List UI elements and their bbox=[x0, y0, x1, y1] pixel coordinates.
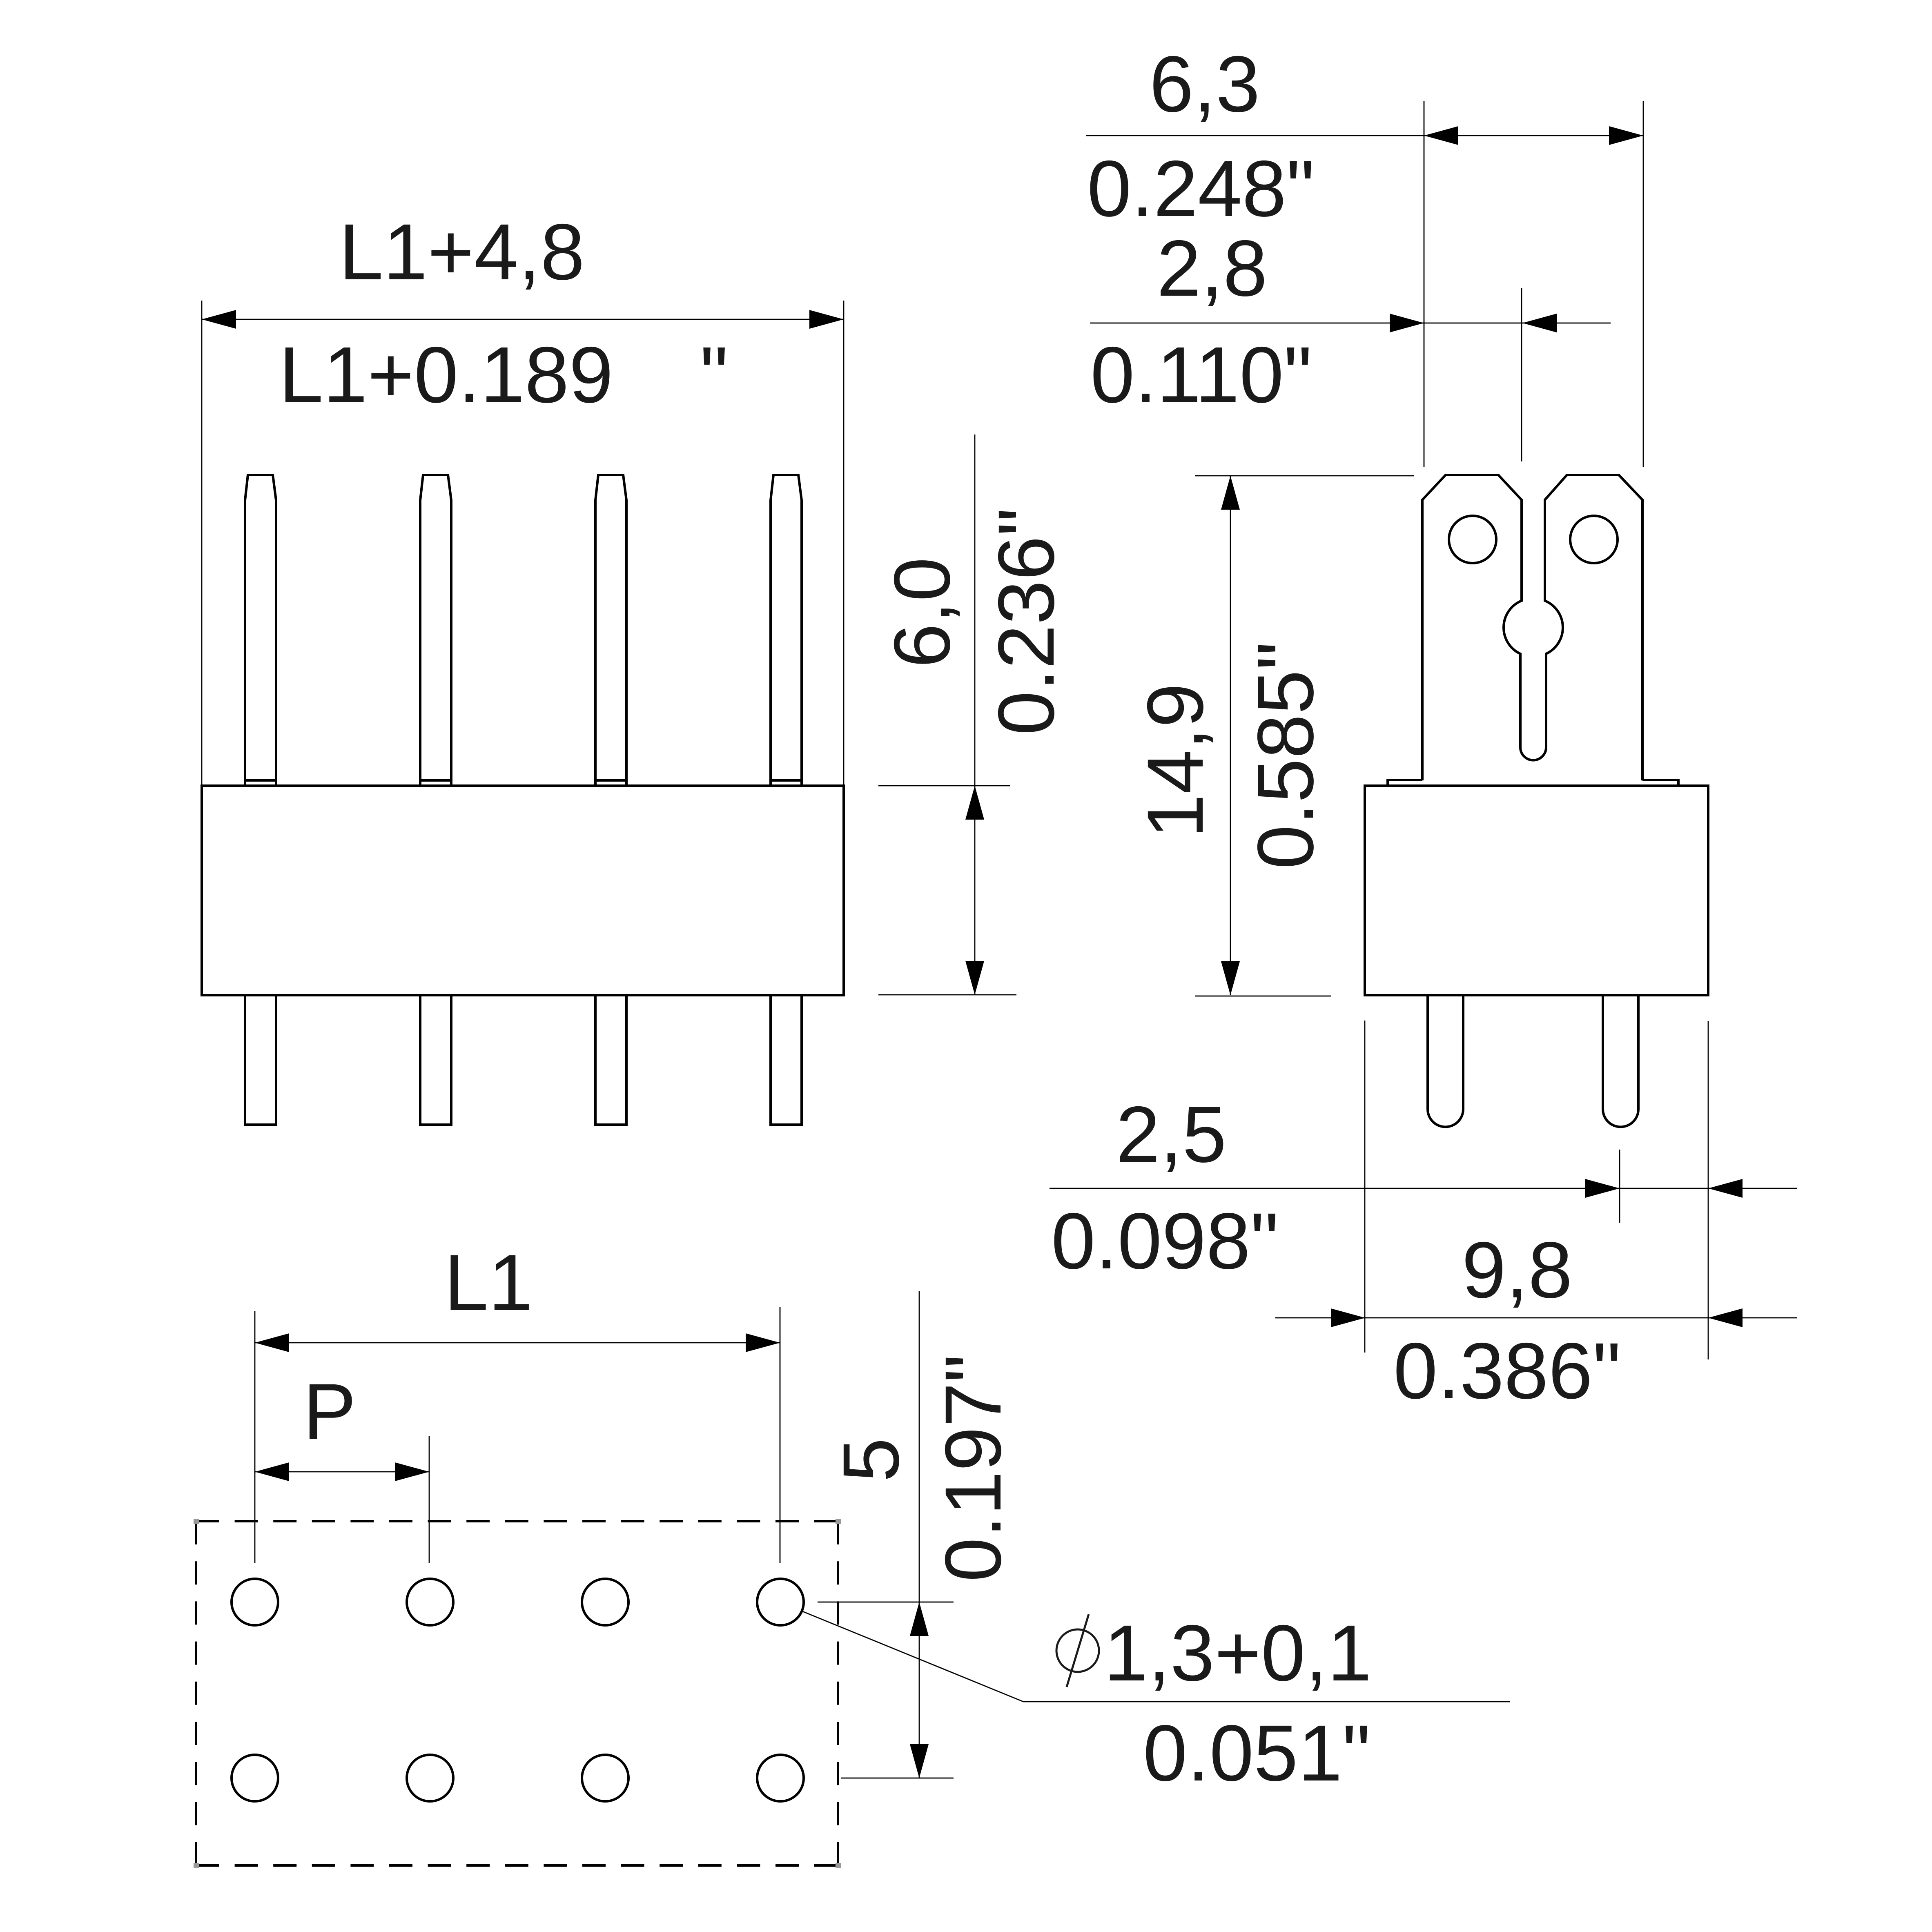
svg-text:0.110": 0.110" bbox=[1090, 330, 1312, 419]
hole row1 col1 bbox=[232, 1579, 278, 1625]
svg-text:L1+0.189: L1+0.189 bbox=[279, 330, 613, 419]
flange right segment bbox=[1642, 780, 1678, 786]
extension line 6,3 left bbox=[1424, 101, 1425, 467]
extension line right of L1+4,8 bbox=[843, 301, 845, 786]
hole row2 col2 bbox=[407, 1755, 453, 1801]
extension line row2 bbox=[841, 1778, 954, 1779]
extension line body bottom left bbox=[1195, 996, 1331, 997]
extension line body left bbox=[1364, 1021, 1366, 1353]
corner marker bottom-left bbox=[194, 1863, 199, 1868]
pin 2 bottom bbox=[420, 995, 451, 1125]
flange left segment bbox=[1388, 780, 1422, 786]
svg-text:5: 5 bbox=[827, 1438, 916, 1482]
arrow right L1 bbox=[746, 1333, 780, 1352]
pin 1 bottom bbox=[245, 995, 276, 1125]
extension line P right bbox=[429, 1436, 430, 1563]
dimension 6,0 vertical line bbox=[974, 435, 976, 995]
extension line blade top bbox=[1195, 475, 1414, 477]
arrow up at body top bbox=[965, 786, 984, 820]
drill outline dashed rectangle bbox=[196, 1521, 838, 1865]
svg-text:0.197": 0.197" bbox=[929, 1354, 1018, 1582]
pin 1 top bbox=[245, 475, 276, 786]
arrow down at row2 bbox=[910, 1744, 929, 1778]
dimension line 2,5 bbox=[1050, 1188, 1797, 1189]
dimension line 9,8 bbox=[1275, 1317, 1797, 1319]
arrow left P bbox=[255, 1462, 289, 1481]
arrow left L1 bbox=[255, 1333, 289, 1352]
arrow at body edge pointing left bbox=[1708, 1179, 1743, 1198]
svg-text:0.585": 0.585" bbox=[1241, 642, 1330, 869]
extension line body top bbox=[878, 785, 1010, 787]
diameter symbol circle bbox=[1056, 1629, 1099, 1672]
fork blade outline bbox=[1422, 475, 1642, 780]
extension line body right bbox=[1708, 1021, 1709, 1359]
arrow right of L1+4,8 bbox=[809, 310, 844, 329]
corner marker top-right bbox=[836, 1519, 841, 1524]
dimension line P bbox=[255, 1471, 429, 1473]
svg-text:0.236": 0.236" bbox=[982, 508, 1071, 735]
arrow down at body bottom bbox=[965, 961, 984, 995]
arrow at 3728 pointing left bbox=[1522, 314, 1557, 332]
side view body bbox=[1365, 786, 1708, 995]
side pin left bbox=[1428, 995, 1463, 1127]
tick pin centre bbox=[1619, 1150, 1620, 1223]
extension line L1 right bbox=[780, 1307, 781, 1563]
dimension line 6,3 bbox=[1086, 135, 1643, 136]
arrow at pin centre pointing right bbox=[1585, 1179, 1620, 1198]
front view body bbox=[202, 786, 844, 995]
arrow right 6,3 bbox=[1609, 126, 1643, 145]
extension tick blade inner edge bbox=[1521, 288, 1522, 461]
corner marker top-left bbox=[194, 1519, 199, 1524]
svg-text:6,3: 6,3 bbox=[1149, 40, 1260, 129]
hole row1 col4 bbox=[757, 1579, 804, 1625]
hole row1 col2 bbox=[407, 1579, 453, 1625]
svg-text:2,8: 2,8 bbox=[1157, 224, 1267, 313]
svg-text:": " bbox=[700, 330, 728, 419]
arrow up 14,9 bbox=[1221, 476, 1240, 510]
svg-text:2,5: 2,5 bbox=[1116, 1090, 1226, 1179]
hole row2 col4 bbox=[757, 1755, 804, 1801]
svg-text:0.386": 0.386" bbox=[1393, 1326, 1621, 1415]
pin 3 bottom bbox=[595, 995, 626, 1125]
dimension 5 vertical line bbox=[919, 1291, 920, 1778]
svg-text:14,9: 14,9 bbox=[1131, 683, 1220, 838]
pin 4 bottom bbox=[771, 995, 802, 1125]
blade hole right bbox=[1570, 516, 1618, 563]
arrow down 14,9 bbox=[1221, 961, 1240, 995]
svg-text:L1+4,8: L1+4,8 bbox=[339, 207, 585, 296]
extension line row1 bbox=[818, 1602, 954, 1603]
dimension line 2,8 bbox=[1090, 323, 1611, 324]
svg-text:6,0: 6,0 bbox=[878, 557, 967, 668]
dimension line L1+4,8 bbox=[202, 319, 844, 320]
pin 4 top bbox=[771, 475, 802, 786]
arrow left of L1+4,8 bbox=[202, 310, 236, 329]
hole row1 col3 bbox=[582, 1579, 628, 1625]
dimension line L1 bbox=[255, 1342, 780, 1344]
side pin right bbox=[1603, 995, 1638, 1127]
leader line hole diameter bbox=[802, 1611, 1510, 1702]
diameter symbol slash bbox=[1067, 1614, 1089, 1687]
extension line body bottom bbox=[878, 994, 1016, 996]
blade hole left bbox=[1449, 516, 1496, 563]
arrow at body right pointing left bbox=[1708, 1308, 1743, 1327]
hole row2 col1 bbox=[232, 1755, 278, 1801]
svg-text:0.051": 0.051" bbox=[1143, 1709, 1370, 1798]
svg-text:L1: L1 bbox=[444, 1238, 533, 1327]
corner marker bottom-right bbox=[836, 1863, 841, 1868]
arrow at 3487 pointing right bbox=[1390, 314, 1424, 332]
svg-text:0.098": 0.098" bbox=[1051, 1197, 1279, 1286]
svg-text:P: P bbox=[303, 1367, 356, 1456]
svg-text:9,8: 9,8 bbox=[1462, 1226, 1572, 1315]
pin 2 top bbox=[420, 475, 451, 786]
arrow left 6,3 bbox=[1424, 126, 1458, 145]
svg-text:1,3+0,1: 1,3+0,1 bbox=[1104, 1609, 1372, 1698]
extension line 6,3 right bbox=[1643, 101, 1644, 467]
pin 3 top bbox=[595, 475, 626, 786]
arrow up at row1 bbox=[910, 1602, 929, 1636]
dimension 14,9 vertical line bbox=[1230, 476, 1231, 995]
extension line left of L1+4,8 bbox=[201, 301, 203, 786]
hole row2 col3 bbox=[582, 1755, 628, 1801]
arrow at body left pointing right bbox=[1331, 1308, 1365, 1327]
extension line L1 left bbox=[254, 1311, 256, 1563]
svg-text:0.248": 0.248" bbox=[1087, 144, 1315, 233]
arrow right P bbox=[395, 1462, 429, 1481]
